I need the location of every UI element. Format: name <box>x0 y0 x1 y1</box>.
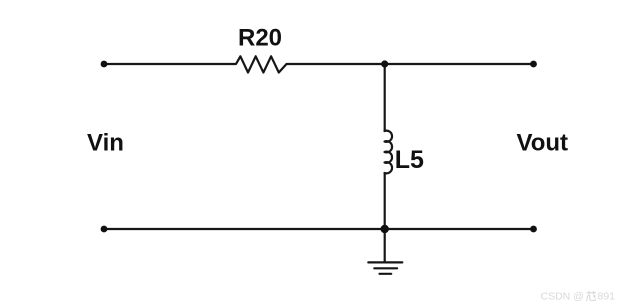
svg-text:Vout: Vout <box>517 130 569 157</box>
svg-text:891: 891 <box>598 291 616 303</box>
svg-text:R20: R20 <box>238 25 282 52</box>
svg-text:L5: L5 <box>395 146 424 174</box>
svg-text:CSDN @: CSDN @ <box>541 291 584 303</box>
svg-text:Vin: Vin <box>87 130 124 157</box>
